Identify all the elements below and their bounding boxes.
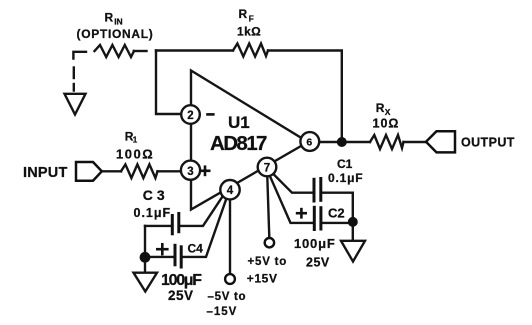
- svg-text:0.1μF: 0.1μF: [134, 206, 172, 220]
- svg-text:(OPTIONAL): (OPTIONAL): [77, 27, 154, 41]
- svg-text:F: F: [249, 14, 254, 24]
- svg-text:100μF: 100μF: [294, 236, 336, 251]
- svg-text:+15V: +15V: [247, 271, 278, 285]
- svg-text:3: 3: [187, 166, 193, 178]
- svg-text:AD817: AD817: [210, 132, 267, 155]
- svg-text:R: R: [105, 10, 114, 24]
- svg-text:OUTPUT: OUTPUT: [461, 135, 515, 149]
- svg-text:7: 7: [264, 163, 270, 175]
- svg-text:C1: C1: [337, 157, 353, 171]
- svg-text:–15V: –15V: [207, 306, 238, 318]
- svg-text:1: 1: [133, 136, 138, 145]
- svg-text:100μF: 100μF: [161, 272, 202, 289]
- svg-text:R: R: [239, 7, 248, 21]
- svg-text:C2: C2: [328, 206, 345, 221]
- svg-text:2: 2: [187, 110, 193, 122]
- svg-text:25V: 25V: [306, 255, 330, 269]
- svg-text:U1: U1: [228, 113, 250, 132]
- svg-text:IN: IN: [114, 17, 123, 27]
- svg-text:10Ω: 10Ω: [373, 117, 400, 131]
- svg-text:100Ω: 100Ω: [116, 146, 154, 161]
- svg-text:INPUT: INPUT: [23, 165, 68, 181]
- svg-text:0.1μF: 0.1μF: [328, 171, 363, 185]
- svg-text:+5V to: +5V to: [248, 256, 288, 268]
- svg-text:1kΩ: 1kΩ: [237, 25, 261, 39]
- svg-text:6: 6: [306, 136, 312, 148]
- svg-text:25V: 25V: [168, 288, 194, 303]
- svg-text:C3: C3: [143, 187, 169, 203]
- svg-text:C4: C4: [188, 241, 204, 255]
- svg-text:–5V to: –5V to: [208, 291, 247, 303]
- svg-text:R: R: [376, 101, 385, 115]
- svg-text:4: 4: [227, 185, 234, 197]
